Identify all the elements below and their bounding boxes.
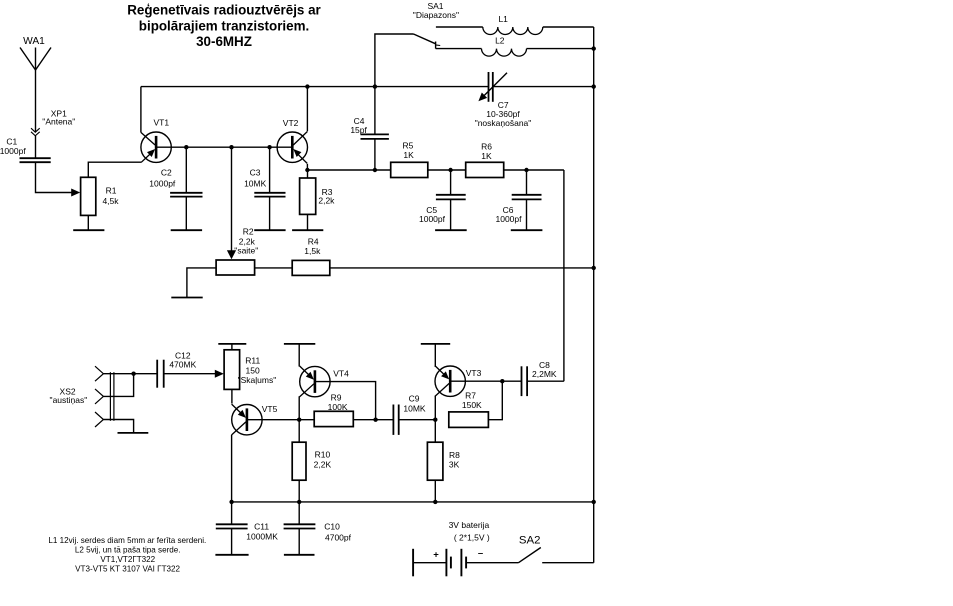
resistor R6 bbox=[466, 162, 504, 177]
inductor L1 bbox=[483, 27, 543, 35]
svg-text:4,5k: 4,5k bbox=[102, 196, 119, 206]
wire R10 bottom stem bbox=[298, 480, 300, 502]
label L2 bbox=[495, 36, 505, 46]
label battery polarity + bbox=[433, 549, 439, 560]
wire top rail (left of C7) bbox=[141, 86, 489, 88]
svg-text:150: 150 bbox=[246, 366, 260, 376]
node R9 right junction bbox=[373, 418, 377, 422]
battery cell 2 positive plate bbox=[460, 549, 462, 577]
label VT2 bbox=[283, 118, 299, 128]
transistor VT5 bbox=[232, 404, 263, 435]
wire C2 stem bbox=[185, 147, 187, 230]
label C3 bbox=[244, 167, 267, 188]
ground C10 bbox=[284, 554, 315, 556]
wire VT4 base bbox=[315, 382, 376, 420]
svg-text:2,2k: 2,2k bbox=[318, 196, 335, 206]
wire SA2 to right bus bbox=[542, 562, 594, 564]
wire top rail (right of C7) bbox=[493, 86, 594, 88]
label R7 bbox=[462, 390, 482, 410]
svg-text:R5: R5 bbox=[402, 140, 413, 150]
capacitor C6 bbox=[512, 195, 542, 200]
resistor R5 bbox=[391, 162, 428, 177]
label VT3 bbox=[466, 368, 482, 378]
svg-text:WA1: WA1 bbox=[23, 36, 45, 47]
resistor R2 bbox=[216, 260, 255, 275]
label C2 bbox=[149, 168, 176, 189]
svg-text:2,2MK: 2,2MK bbox=[532, 369, 557, 379]
label R9 bbox=[328, 393, 348, 413]
wire C10 top stem bbox=[298, 502, 300, 524]
svg-text:R10: R10 bbox=[315, 450, 331, 460]
wire R5 to R6 bbox=[428, 169, 466, 171]
node VT5 collector on rail bbox=[229, 500, 233, 504]
node rail right bbox=[592, 84, 596, 88]
svg-text:2,2K: 2,2K bbox=[314, 459, 332, 469]
battery GB1 terminal plate bbox=[412, 549, 414, 577]
transistor VT1 bbox=[141, 132, 171, 162]
svg-text:L1: L1 bbox=[498, 14, 508, 24]
wire C9 to R7 junction bbox=[399, 419, 436, 421]
label R10 bbox=[314, 450, 332, 470]
label VT1 bbox=[154, 118, 170, 128]
ground R3 bbox=[292, 229, 323, 231]
node R4 row right bbox=[592, 266, 596, 270]
label C8 bbox=[532, 360, 557, 379]
label SA1 bbox=[413, 1, 459, 20]
capacitor C12 bbox=[157, 360, 164, 388]
svg-text:"Diapazons": "Diapazons" bbox=[413, 10, 459, 20]
wire C8 to vertical bbox=[527, 380, 564, 382]
wire R4 to right vertical bbox=[330, 267, 594, 269]
ground XS2 bbox=[118, 432, 149, 434]
svg-text:C1: C1 bbox=[6, 137, 17, 147]
node C6 tap bbox=[524, 168, 528, 172]
resistor R1 bbox=[81, 177, 96, 215]
wire VT1 base row bbox=[156, 146, 292, 148]
label battery polarity - bbox=[478, 548, 483, 559]
battery cell 2 negative plate bbox=[465, 557, 467, 569]
svg-text:30-6MHZ: 30-6MHZ bbox=[196, 34, 252, 49]
label R1 bbox=[102, 186, 119, 206]
label C12 bbox=[169, 351, 196, 370]
svg-text:VT1,VT2ГT322: VT1,VT2ГT322 bbox=[100, 555, 155, 564]
label R11 bbox=[238, 356, 277, 386]
capacitor C10 bbox=[284, 524, 316, 528]
wire R11 top stem bbox=[231, 344, 233, 350]
svg-text:VT1: VT1 bbox=[154, 118, 170, 128]
wire R1 bottom bbox=[87, 215, 89, 230]
svg-text:R11: R11 bbox=[245, 356, 260, 366]
wire VT1 collector riser bbox=[140, 87, 142, 133]
svg-text:150K: 150K bbox=[462, 400, 482, 410]
svg-text:–: – bbox=[478, 548, 483, 559]
wire XS2 pin3 to ground bbox=[103, 420, 133, 433]
capacitor C11 bbox=[216, 524, 248, 528]
wire VT4 emitter riser bbox=[298, 344, 300, 367]
resistor R9 bbox=[314, 411, 353, 426]
wire C3 stem bbox=[269, 147, 271, 230]
arrow C7 bbox=[478, 73, 507, 102]
resistor R8 bbox=[427, 442, 443, 480]
svg-text:10MK: 10MK bbox=[244, 179, 267, 189]
wire C5 stem bbox=[450, 170, 452, 230]
label R4 bbox=[304, 236, 321, 256]
resistor R10 bbox=[292, 442, 306, 480]
wire VT2 collector riser bbox=[306, 87, 308, 131]
battery cell 1 positive plate bbox=[445, 549, 447, 577]
node L2 right bbox=[592, 46, 596, 50]
svg-text:C10: C10 bbox=[324, 522, 340, 532]
wire L2 lead-in bbox=[436, 48, 482, 50]
svg-text:470MK: 470MK bbox=[169, 360, 196, 370]
svg-text:1000pf: 1000pf bbox=[149, 179, 176, 189]
svg-text:VT5: VT5 bbox=[262, 404, 278, 414]
ground C3 bbox=[254, 229, 285, 231]
wire R3 bottom stem bbox=[307, 214, 309, 230]
svg-text:C11: C11 bbox=[254, 522, 269, 532]
wire C12 to R11 wiper bbox=[164, 370, 224, 378]
node VT1 base / C2 bbox=[184, 145, 188, 149]
wire L1 to right vertical bbox=[543, 26, 594, 28]
title text bbox=[127, 3, 321, 50]
wire VT3 emitter riser bbox=[434, 344, 436, 367]
wire R1 top to VT1 emitter bbox=[88, 162, 141, 177]
svg-text:15pf: 15pf bbox=[350, 125, 367, 135]
label C11 bbox=[246, 522, 278, 542]
inductor L2 bbox=[482, 49, 527, 57]
wire battery left lead bbox=[413, 562, 446, 564]
label C6 bbox=[496, 205, 523, 224]
wire XS2 pin2 up bbox=[103, 374, 133, 397]
svg-text:1K: 1K bbox=[403, 150, 414, 160]
label C10 bbox=[324, 522, 351, 543]
svg-text:1000pf: 1000pf bbox=[0, 146, 26, 156]
wire R3 top stem bbox=[307, 170, 309, 178]
wire C11 bottom stem bbox=[231, 529, 233, 555]
wire C11 top stem bbox=[231, 502, 233, 524]
svg-text:3K: 3K bbox=[449, 459, 460, 469]
wire VT3 collector drop bbox=[434, 396, 436, 420]
capacitor C5 bbox=[436, 195, 466, 200]
node C5 tap bbox=[448, 168, 452, 172]
svg-text:R4: R4 bbox=[308, 236, 319, 246]
svg-text:"noskaņošana": "noskaņošana" bbox=[475, 118, 532, 128]
label XS2 bbox=[50, 386, 88, 405]
capacitor C3 bbox=[254, 193, 285, 197]
wire VT2 emitter drop bbox=[306, 164, 308, 170]
svg-text:"austiņas": "austiņas" bbox=[50, 395, 88, 405]
capacitor C1 bbox=[20, 158, 51, 162]
ground R2 bbox=[171, 297, 202, 299]
terminal bar VT4 top bbox=[284, 343, 315, 345]
svg-text:1000pf: 1000pf bbox=[419, 214, 446, 224]
label C4 bbox=[350, 116, 367, 135]
wire VT4 collector drop bbox=[298, 396, 300, 419]
wire C1 to R1 wiper bbox=[36, 162, 81, 196]
svg-text:100K: 100K bbox=[328, 402, 348, 412]
connector XS2 pin 2 bbox=[95, 389, 103, 404]
node VT2 emitter junction bbox=[305, 168, 309, 172]
label WA1 bbox=[23, 36, 45, 47]
wire SA1 pole bbox=[375, 34, 414, 87]
svg-text:( 2*1,5V ): ( 2*1,5V ) bbox=[454, 533, 490, 543]
svg-text:C2: C2 bbox=[161, 168, 172, 178]
wire R6 right bbox=[504, 169, 564, 171]
wire C4 top stem bbox=[374, 87, 376, 135]
wire C6 stem bbox=[526, 170, 528, 230]
svg-text:C3: C3 bbox=[250, 167, 261, 177]
node rail C4/SA1 tap bbox=[373, 84, 377, 88]
ground C5 bbox=[435, 229, 467, 231]
wire R2 to R4 bbox=[255, 267, 293, 269]
label SA2 bbox=[519, 534, 541, 546]
label XP1 bbox=[42, 109, 75, 127]
transistor VT4 bbox=[300, 366, 331, 397]
label R6 bbox=[481, 141, 492, 161]
svg-text:R1: R1 bbox=[106, 186, 117, 196]
wire L1 lead-in bbox=[436, 26, 483, 28]
svg-text:SA2: SA2 bbox=[519, 534, 541, 546]
label C9 bbox=[403, 393, 426, 413]
label C7 bbox=[475, 100, 532, 128]
wire right vertical bus bbox=[593, 27, 595, 563]
transistor VT2 bbox=[277, 131, 307, 163]
resistor R4 bbox=[292, 260, 330, 275]
svg-text:L2 5vij, un tā paša tipa serde: L2 5vij, un tā paša tipa serde. bbox=[75, 545, 181, 554]
ground C11 bbox=[215, 554, 248, 556]
svg-text:L1 12vij. serdes diam 5mm ar f: L1 12vij. serdes diam 5mm ar ferīta serd… bbox=[48, 536, 206, 545]
wire R2 left to ground bbox=[187, 268, 216, 298]
svg-text:10MK: 10MK bbox=[403, 404, 426, 414]
label C5 bbox=[419, 205, 446, 224]
wire C10 bottom stem bbox=[298, 529, 300, 555]
svg-text:C9: C9 bbox=[409, 393, 420, 403]
ground C2 bbox=[171, 229, 202, 231]
svg-text:"saite": "saite" bbox=[234, 246, 258, 256]
wire XS2 pin1 to C12 bbox=[103, 373, 157, 375]
switch SA1 lever bbox=[414, 34, 441, 49]
capacitor C8 bbox=[522, 366, 528, 396]
wire R8 bottom stem bbox=[434, 480, 436, 502]
wire C4 bottom stem bbox=[374, 139, 376, 170]
svg-text:L2: L2 bbox=[495, 36, 505, 46]
resistor R7 bbox=[449, 412, 489, 428]
svg-text:1000MK: 1000MK bbox=[246, 532, 278, 542]
label R3 bbox=[318, 187, 335, 206]
wire R9 to C9 bbox=[353, 419, 393, 421]
antenna WA1 bbox=[20, 48, 51, 133]
svg-text:VT2: VT2 bbox=[283, 118, 299, 128]
terminal bar VT3 top bbox=[421, 343, 450, 345]
svg-text:R7: R7 bbox=[465, 390, 476, 400]
resistor R11 bbox=[224, 350, 240, 390]
label VT4 bbox=[333, 368, 349, 378]
node VT2 collector on rail bbox=[305, 84, 309, 88]
wire R2 wiper bbox=[227, 147, 236, 259]
connector XS2 pin 3 bbox=[95, 412, 103, 427]
svg-text:4700pf: 4700pf bbox=[325, 533, 352, 543]
label L1 bbox=[498, 14, 508, 24]
svg-text:+: + bbox=[433, 549, 439, 560]
notes text bbox=[48, 536, 206, 574]
wire R8 top stem bbox=[434, 420, 436, 443]
node VT3 base junction bbox=[500, 379, 504, 383]
svg-text:1,5k: 1,5k bbox=[304, 246, 321, 256]
svg-text:VT3-VT5 KT 3107 VAI ГT322: VT3-VT5 KT 3107 VAI ГT322 bbox=[75, 564, 180, 573]
svg-text:3V baterija: 3V baterija bbox=[449, 520, 490, 530]
svg-text:R9: R9 bbox=[331, 393, 342, 403]
node C3 tap bbox=[267, 145, 271, 149]
label R2 bbox=[234, 226, 258, 255]
svg-text:1K: 1K bbox=[481, 151, 492, 161]
wire VT3 base row bbox=[450, 380, 521, 382]
battery cell 1 negative plate bbox=[450, 557, 452, 569]
capacitor C9 bbox=[393, 405, 398, 435]
wire VT5 base row bbox=[247, 419, 314, 421]
node XS2 junction bbox=[131, 372, 135, 376]
wire R10 top stem bbox=[298, 420, 300, 443]
label battery bbox=[449, 520, 490, 543]
wire R7 right riser bbox=[488, 381, 502, 420]
svg-text:"Skaļums": "Skaļums" bbox=[238, 375, 277, 385]
wire VT2 emitter to R5 bbox=[307, 169, 390, 171]
label C1 bbox=[0, 137, 26, 157]
svg-text:bipolārajiem tranzistoriem.: bipolārajiem tranzistoriem. bbox=[139, 18, 309, 33]
capacitor C2 bbox=[170, 193, 202, 197]
ground R1 bbox=[73, 229, 104, 231]
wire bottom rail bbox=[232, 501, 594, 503]
transistor VT3 bbox=[435, 366, 466, 397]
wire R11 bottom to VT5 emitter bbox=[231, 389, 233, 403]
capacitor C4 bbox=[361, 134, 389, 139]
node C4 on R5 row bbox=[373, 168, 377, 172]
connector XP1 bbox=[31, 128, 40, 158]
connector XS2 pin 1 bbox=[95, 366, 103, 381]
wire R6 output down to C8 bbox=[563, 170, 565, 381]
node R8 on rail bbox=[433, 500, 437, 504]
switch SA2 lever bbox=[519, 548, 541, 563]
capacitor C7 (variable) bbox=[489, 72, 493, 102]
svg-text:1000pf: 1000pf bbox=[496, 214, 523, 224]
svg-text:Reģenetīvais radiouztvērējs ar: Reģenetīvais radiouztvērējs ar bbox=[127, 3, 321, 18]
node R9/R10 junction bbox=[297, 418, 301, 422]
svg-text:VT4: VT4 bbox=[333, 368, 349, 378]
connector XS2 body bars bbox=[110, 372, 114, 421]
svg-text:"Antena": "Antena" bbox=[42, 117, 75, 127]
wire L2 to right vertical bbox=[527, 48, 594, 50]
svg-text:VT3: VT3 bbox=[466, 368, 482, 378]
ground C6 bbox=[511, 229, 543, 231]
node R7/R8 junction bbox=[433, 418, 437, 422]
label R5 bbox=[402, 140, 414, 160]
label R8 bbox=[449, 450, 460, 469]
svg-text:R2: R2 bbox=[243, 226, 254, 236]
node right bus on rail bbox=[592, 500, 596, 504]
wire VT5 collector drop bbox=[231, 435, 233, 502]
node R10/C10 on rail bbox=[297, 500, 301, 504]
label VT5 bbox=[262, 404, 278, 414]
resistor R3 bbox=[300, 178, 316, 214]
svg-text:R6: R6 bbox=[481, 141, 492, 151]
wire battery to SA2 bbox=[466, 562, 518, 564]
node R2 wiper tap bbox=[229, 145, 233, 149]
terminal bar R11 top bbox=[218, 343, 246, 345]
